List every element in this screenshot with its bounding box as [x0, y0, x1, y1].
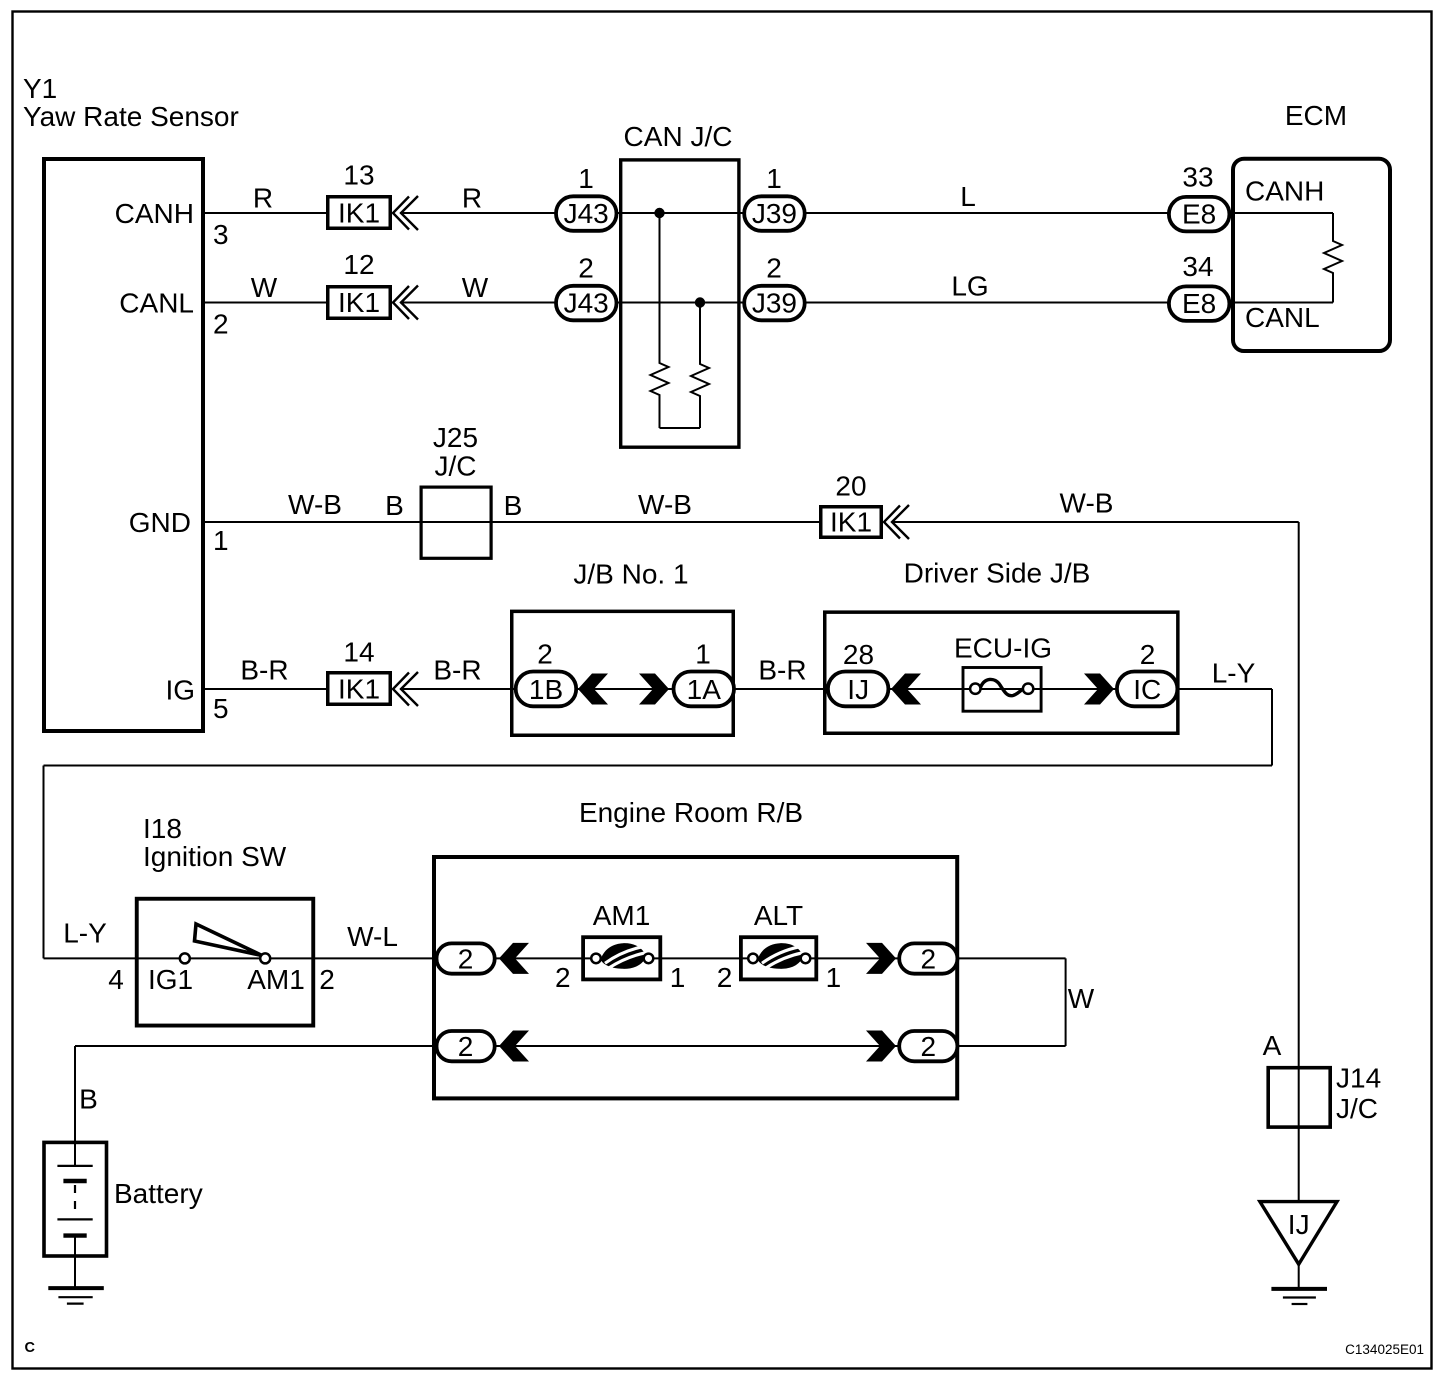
wire ECM CANL internal	[1229, 302, 1333, 304]
oval 2 engine top-left	[437, 943, 495, 973]
svg-text:J14: J14	[1336, 1063, 1381, 1094]
svg-text:1: 1	[213, 525, 229, 556]
svg-text:13: 13	[343, 160, 374, 191]
svg-text:CANH: CANH	[115, 198, 194, 229]
wire through ignition switch	[136, 957, 314, 959]
svg-text:28: 28	[843, 639, 874, 670]
ignition switch I18 box	[137, 899, 314, 1026]
wire IC to corner	[1178, 688, 1272, 690]
oval 2 engine bottom-right	[899, 1031, 957, 1061]
oval 2 engine bottom-left	[437, 1031, 495, 1061]
svg-text:2: 2	[537, 639, 553, 670]
ground symbol battery	[48, 1288, 104, 1304]
wire GND sensor to J25	[203, 521, 421, 523]
oval IC	[1117, 672, 1178, 707]
svg-text:I18: I18	[143, 813, 182, 844]
arrow right engine bottom row	[866, 1031, 896, 1062]
svg-text:2: 2	[578, 253, 594, 284]
battery plate long lower	[57, 1218, 92, 1220]
svg-text:W-B: W-B	[1060, 488, 1114, 519]
yaw rate sensor Y1 box	[44, 159, 203, 731]
svg-text:2: 2	[766, 253, 782, 284]
svg-text:CAN J/C: CAN J/C	[624, 121, 733, 152]
fuse ECU-IG terminal circles	[970, 684, 980, 694]
wire CANH inside CAN J/C	[617, 212, 745, 214]
svg-text:LG: LG	[951, 271, 988, 302]
wire long horizontal L-Y return	[44, 765, 1273, 767]
svg-text:2: 2	[213, 309, 229, 340]
oval E8 pin33	[1169, 197, 1230, 232]
svg-text:12: 12	[343, 249, 374, 280]
svg-text:W: W	[251, 272, 278, 303]
resistor CAN J/C right	[691, 303, 709, 429]
svg-text:B-R: B-R	[433, 655, 481, 686]
wire engine room bottom row	[495, 1045, 899, 1047]
wire CANL inside CAN J/C	[617, 302, 745, 304]
svg-text:J/B No. 1: J/B No. 1	[573, 559, 688, 590]
svg-text:C134025E01: C134025E01	[1345, 1342, 1424, 1357]
wire engine room top row	[495, 957, 899, 959]
oval J43 pin2	[556, 286, 617, 321]
svg-text:AM1: AM1	[593, 900, 651, 931]
wire W riser	[1065, 958, 1067, 1046]
svg-text:B-R: B-R	[240, 655, 288, 686]
wire GND through J25	[421, 521, 493, 523]
svg-text:J39: J39	[752, 288, 797, 319]
svg-text:Y1: Y1	[23, 73, 57, 104]
fusible link AM1 element	[601, 943, 647, 969]
fuse ECU-IG element	[980, 679, 1024, 695]
ignition switch contact AM1	[260, 953, 270, 963]
ignition switch lever	[195, 924, 263, 956]
svg-text:IJ: IJ	[1288, 1209, 1310, 1240]
wire 1A to IJ oval	[734, 688, 828, 690]
svg-text:J43: J43	[564, 288, 609, 319]
svg-text:J/C: J/C	[1336, 1093, 1378, 1124]
svg-text:W-B: W-B	[638, 489, 692, 520]
svg-text:IJ: IJ	[847, 674, 869, 705]
svg-text:IC: IC	[1133, 674, 1161, 705]
oval E8 pin34	[1169, 286, 1230, 321]
oval J39 pin2	[744, 286, 805, 321]
ground symbol right	[1271, 1289, 1327, 1304]
svg-text:1: 1	[826, 962, 842, 993]
chevron shield mark row IG	[393, 672, 418, 706]
svg-text:Ignition SW: Ignition SW	[143, 841, 287, 872]
svg-text:W-L: W-L	[347, 921, 398, 952]
oval 1B	[516, 672, 577, 707]
connector box IK1 14	[328, 673, 391, 705]
svg-text:J43: J43	[564, 198, 609, 229]
junction dot CANH	[654, 208, 664, 218]
wire L J39-1 to E8-33	[805, 212, 1169, 214]
wire W-L ignition to engine room	[314, 957, 437, 959]
wire battery feed	[75, 1045, 437, 1047]
svg-text:J/C: J/C	[435, 451, 477, 482]
svg-text:J25: J25	[433, 422, 478, 453]
wire GND J25 to IK1-20	[493, 521, 820, 523]
svg-text:B: B	[504, 490, 523, 521]
svg-text:ALT: ALT	[754, 900, 803, 931]
svg-text:AM1: AM1	[247, 964, 305, 995]
svg-text:IK1: IK1	[338, 198, 380, 229]
wire L-Y into ignition switch	[44, 957, 137, 959]
wire bottom row to W riser	[958, 1045, 1066, 1047]
fusible link ALT box	[741, 937, 816, 979]
battery dashed center	[74, 1185, 76, 1215]
CAN J/C box	[621, 160, 739, 447]
oval 2 engine top-right	[899, 943, 957, 973]
wire IJ oval to IC oval	[890, 688, 1117, 690]
wire resistor bottoms join	[660, 427, 701, 429]
svg-text:1: 1	[670, 962, 686, 993]
svg-text:IG: IG	[165, 675, 195, 706]
ECM box	[1233, 159, 1390, 351]
svg-text:2: 2	[458, 1031, 474, 1062]
svg-text:1: 1	[578, 163, 594, 194]
arrow right before IC	[1084, 674, 1114, 705]
ground triangle IJ	[1260, 1202, 1337, 1265]
oval J43 pin1	[556, 196, 617, 231]
wire 1B to 1A	[576, 688, 673, 690]
driver side J/B box	[825, 612, 1178, 733]
wire IJ apex to ground	[1298, 1264, 1300, 1289]
svg-text:J39: J39	[752, 198, 797, 229]
svg-text:2: 2	[921, 1031, 937, 1062]
svg-text:1B: 1B	[529, 674, 563, 705]
svg-text:5: 5	[213, 693, 229, 724]
arrow left after 1B	[578, 674, 608, 705]
wire B-R chevron to 1B	[400, 688, 516, 690]
oval J39 pin1	[744, 196, 805, 231]
wire IG sensor to IK1-14	[203, 688, 327, 690]
svg-text:IG1: IG1	[148, 964, 193, 995]
svg-text:2: 2	[319, 964, 335, 995]
svg-text:Driver Side J/B: Driver Side J/B	[904, 558, 1091, 589]
svg-text:3: 3	[213, 219, 229, 250]
wire CANH sensor to IK1-13	[203, 212, 327, 214]
svg-text:GND: GND	[129, 507, 191, 538]
svg-text:14: 14	[343, 637, 374, 668]
chevron shield mark row CANH	[393, 196, 418, 230]
svg-text:L-Y: L-Y	[63, 918, 107, 949]
resistor CAN J/C left	[651, 213, 669, 428]
svg-text:W-B: W-B	[288, 489, 342, 520]
battery box	[44, 1142, 107, 1256]
svg-text:2: 2	[555, 962, 571, 993]
svg-text:A: A	[1263, 1030, 1282, 1061]
svg-text:20: 20	[835, 471, 866, 502]
svg-text:ECU-IG: ECU-IG	[954, 633, 1052, 664]
battery plate short thick lower	[63, 1233, 86, 1237]
fusible link ALT element	[758, 943, 804, 969]
svg-text:W: W	[1068, 983, 1095, 1014]
engine room R/B box	[434, 857, 957, 1098]
svg-text:1: 1	[695, 639, 711, 670]
fusible link ALT terminal circles	[748, 954, 758, 964]
svg-text:1: 1	[766, 163, 782, 194]
connector box IK1 12	[328, 287, 391, 319]
svg-text:Battery: Battery	[114, 1178, 203, 1209]
svg-text:CANH: CANH	[1245, 176, 1324, 207]
J/B No.1 box	[512, 611, 734, 735]
chevron shield mark row CANL	[393, 286, 418, 320]
battery plate short thick upper	[63, 1179, 86, 1183]
svg-text:B: B	[385, 490, 404, 521]
svg-text:W: W	[462, 272, 489, 303]
svg-text:4: 4	[108, 964, 124, 995]
connector box IK1 20	[821, 507, 882, 538]
wire left riser down	[43, 766, 45, 959]
wire CANL chevron to J43-2	[400, 302, 556, 304]
resistor ECM terminating	[1324, 213, 1342, 303]
J14 J/C box	[1268, 1068, 1330, 1127]
wire top row to W riser	[958, 957, 1066, 959]
J25 J/C box	[421, 487, 491, 558]
svg-text:B: B	[79, 1084, 98, 1115]
wire W-B chevron to right riser	[892, 521, 1299, 523]
wire CANH chevron to J43-1	[400, 212, 556, 214]
svg-text:2: 2	[1140, 639, 1156, 670]
connector box IK1 13	[328, 197, 391, 229]
wire right riser W-B down to IJ triangle	[1298, 522, 1300, 1202]
svg-text:ECM: ECM	[1285, 100, 1347, 131]
svg-text:Engine Room R/B: Engine Room R/B	[579, 797, 803, 828]
svg-text:R: R	[253, 183, 273, 214]
wire battery drop	[74, 1046, 76, 1166]
svg-text:E8: E8	[1182, 288, 1216, 319]
wire corner down	[1271, 689, 1273, 766]
battery plate long top	[57, 1165, 92, 1167]
chevron shield mark row W-B	[884, 505, 909, 539]
fuse ECU-IG box	[963, 668, 1041, 712]
svg-text:CANL: CANL	[119, 288, 194, 319]
fusible link AM1 box	[583, 937, 660, 979]
wire battery to ground	[74, 1236, 76, 1289]
fusible link AM1 terminal circles	[591, 954, 601, 964]
arrow right before 1A	[639, 674, 669, 705]
oval IJ	[828, 672, 889, 707]
arrow right engine top row	[866, 943, 896, 974]
svg-text:IK1: IK1	[338, 674, 380, 705]
wire LG J39-2 to E8-34	[805, 302, 1169, 304]
arrow left engine top row	[499, 943, 529, 974]
svg-text:C: C	[25, 1340, 36, 1356]
svg-text:34: 34	[1182, 251, 1213, 282]
svg-text:2: 2	[458, 944, 474, 975]
arrow left engine bottom row	[499, 1031, 529, 1062]
svg-text:1A: 1A	[687, 674, 722, 705]
svg-text:CANL: CANL	[1245, 302, 1320, 333]
oval 1A	[674, 672, 735, 707]
arrow left after IJ	[891, 674, 921, 705]
svg-text:IK1: IK1	[830, 507, 872, 538]
svg-text:R: R	[462, 183, 482, 214]
ignition switch contact IG1	[180, 953, 190, 963]
svg-text:L: L	[960, 181, 976, 212]
svg-text:B-R: B-R	[758, 655, 806, 686]
wire ECM CANH internal	[1229, 212, 1333, 214]
junction dot CANL	[695, 297, 705, 307]
svg-text:IK1: IK1	[338, 287, 380, 318]
svg-text:2: 2	[717, 962, 733, 993]
wire CANL sensor to IK1-12	[203, 302, 327, 304]
svg-text:E8: E8	[1182, 199, 1216, 230]
svg-text:L-Y: L-Y	[1212, 658, 1256, 689]
svg-text:2: 2	[921, 944, 937, 975]
svg-text:33: 33	[1182, 162, 1213, 193]
svg-text:Yaw Rate Sensor: Yaw Rate Sensor	[23, 101, 239, 132]
